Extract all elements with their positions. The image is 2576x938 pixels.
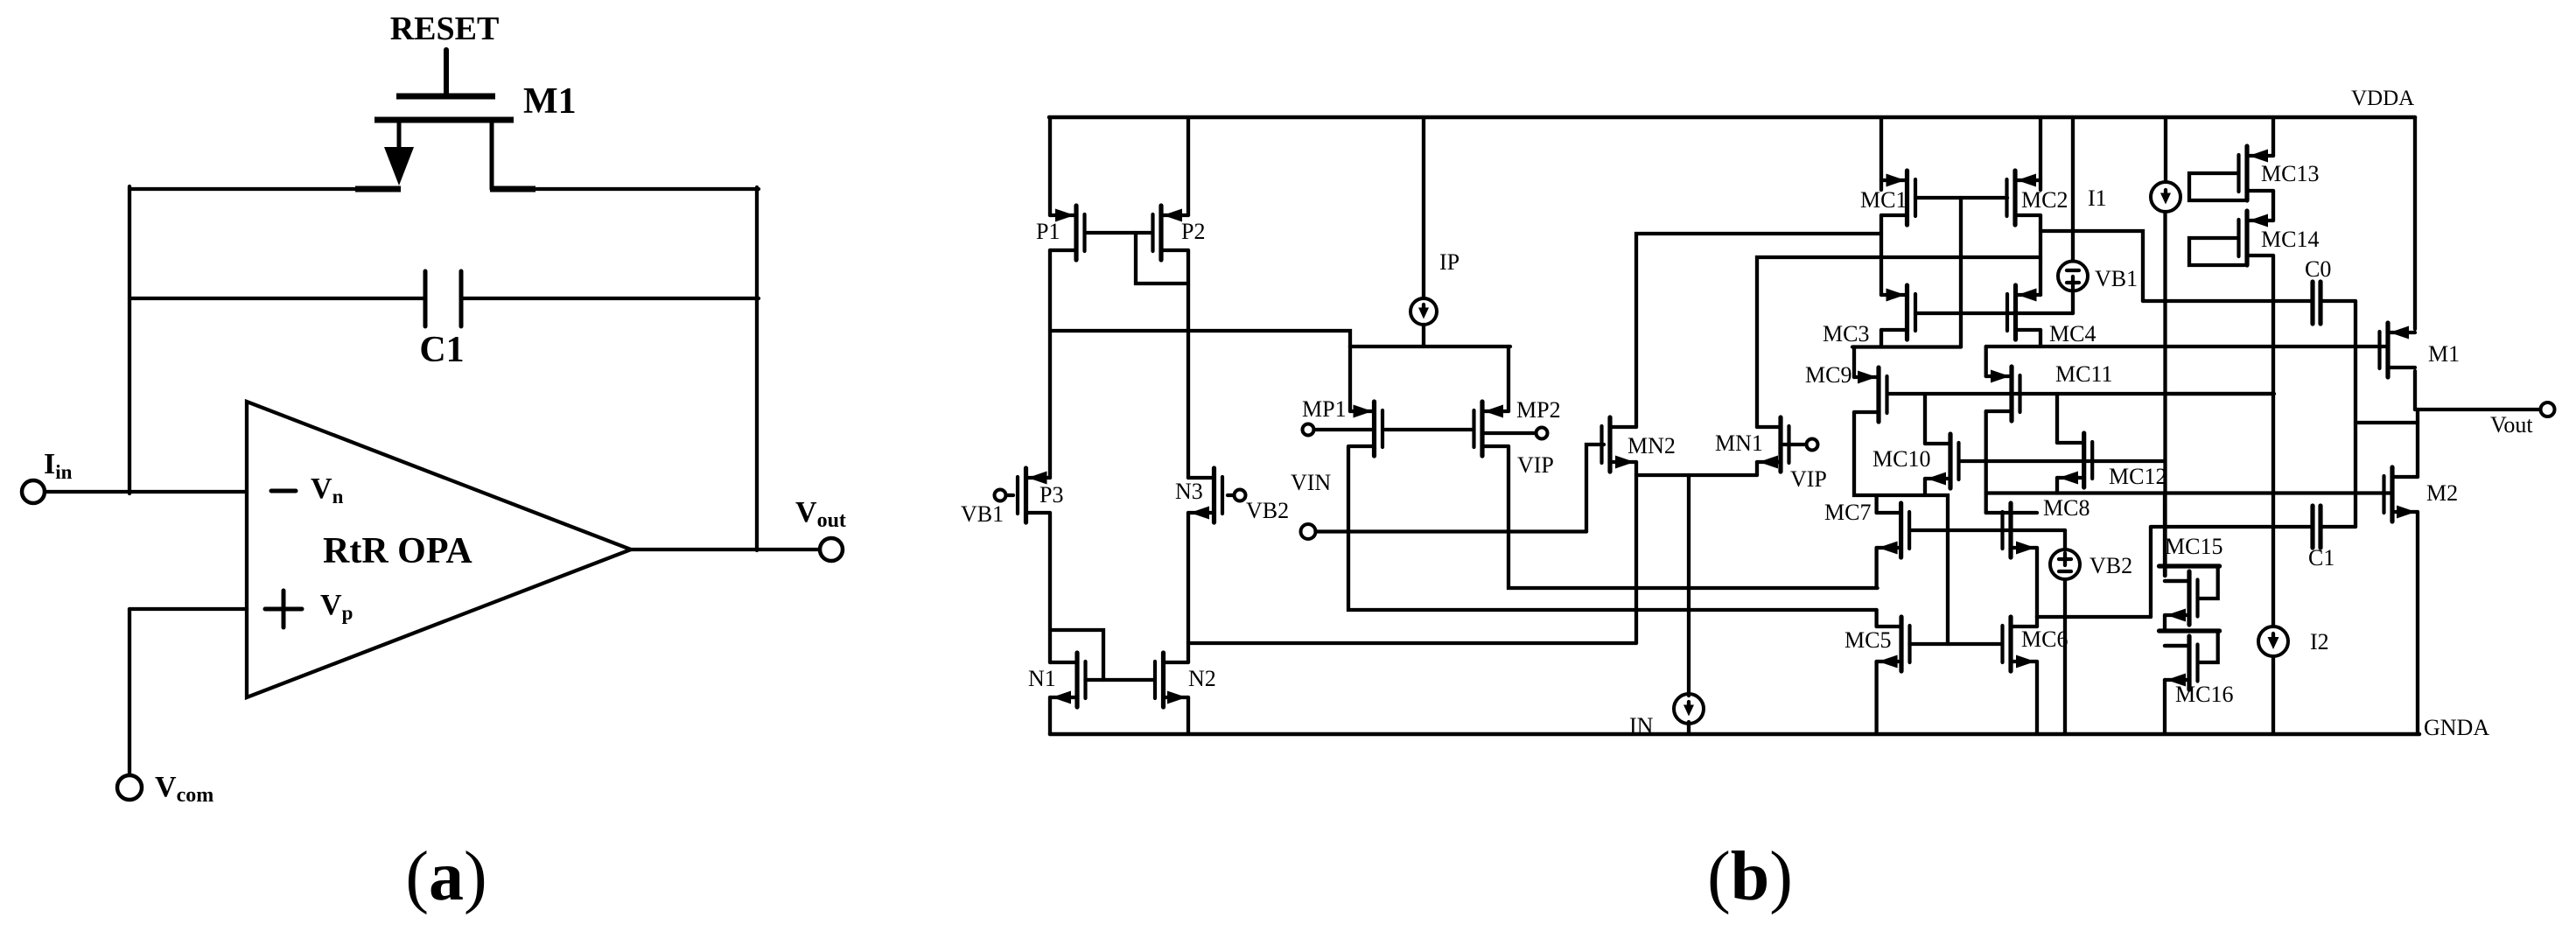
wire: M2 source to GNDA xyxy=(2416,512,2419,734)
wire: C0 left wire xyxy=(2143,299,2313,303)
current source I2 xyxy=(2258,626,2288,656)
transistor N1 xyxy=(1050,653,1086,707)
transistor M1 gate bar xyxy=(396,94,495,100)
voltage source VB1 xyxy=(2058,262,2088,291)
svg-text:MC6: MC6 xyxy=(2021,626,2068,652)
wire: MP2 source vertical xyxy=(1507,346,1510,411)
label VB1 xyxy=(2095,266,2138,291)
wire: P1 drain down to P3 source xyxy=(1048,250,1052,478)
transistor MC16 top bar xyxy=(2159,628,2220,633)
terminal VIP (MN1 gate) xyxy=(1807,439,1818,451)
label MC16 xyxy=(2175,682,2233,707)
transistor MP2 xyxy=(1474,402,1509,456)
transistor MC15 top bar xyxy=(2159,563,2220,568)
wire: MN2 gate riser xyxy=(1586,444,1604,532)
wire: right feedback vertical to Vout xyxy=(755,187,759,550)
terminal Iin xyxy=(22,480,45,503)
wire: Vcom vertical xyxy=(128,609,131,775)
wire: MC7 drain riser xyxy=(1874,495,1878,513)
wire: MP1 gate wire xyxy=(1314,428,1372,431)
transistor MC10 xyxy=(1925,434,1959,488)
wire: cascode bias wire xyxy=(1888,392,2274,395)
transistor M1 drain vertical xyxy=(490,120,494,189)
voltage source VB2 xyxy=(2050,549,2080,579)
label RESET xyxy=(390,10,500,47)
transistor MP1 xyxy=(1350,402,1382,456)
wire: VDDA to MC13 source xyxy=(2271,117,2275,156)
capacitor C0 right plate xyxy=(2318,282,2322,324)
terminal VIN (MP1 gate) xyxy=(1303,424,1314,436)
svg-text:P1: P1 xyxy=(1036,219,1060,244)
terminal VIN xyxy=(1301,524,1316,539)
wire: MC7 source drop xyxy=(1874,548,1878,588)
svg-text:VB1: VB1 xyxy=(961,501,1004,527)
svg-text:I1: I1 xyxy=(2088,185,2107,211)
label MC2 xyxy=(2021,187,2068,213)
wire: Vp input wire xyxy=(129,607,247,611)
label C0 xyxy=(2305,256,2331,282)
capacitor C1 right plate xyxy=(2318,506,2322,548)
wire: thick drain stub of M1 xyxy=(490,186,535,192)
svg-text:N3: N3 xyxy=(1175,479,1203,504)
label VIP (MP2) xyxy=(1517,452,1554,478)
svg-text:MC13: MC13 xyxy=(2261,161,2319,186)
wire: MC4 drain drop xyxy=(2039,330,2042,346)
wire: VIN wire xyxy=(1316,529,1587,533)
svg-text:MC3: MC3 xyxy=(1823,321,1869,346)
label MC15 xyxy=(2165,534,2222,559)
wire: MC1-MC2 gate wire xyxy=(1915,196,2007,199)
svg-text:I2: I2 xyxy=(2310,629,2329,654)
svg-text:Vout: Vout xyxy=(795,496,846,532)
wire: MC6 source to GNDA xyxy=(2035,661,2039,734)
wire: IN to GNDA xyxy=(1687,722,1690,734)
svg-text:VDDA: VDDA xyxy=(2351,87,2414,110)
wire: C0-C1 output column xyxy=(2354,301,2357,527)
transistor M1 (b) xyxy=(2380,323,2416,377)
svg-text:MC12: MC12 xyxy=(2109,464,2166,489)
wire: MC2 drain to MC4 source xyxy=(2039,215,2042,295)
label plus at Vp (h) xyxy=(265,607,302,612)
label VIN xyxy=(1291,470,1331,495)
transistor P2 xyxy=(1153,206,1189,260)
wire: MP1 drain drop xyxy=(1348,446,1877,610)
wire: C1 right wire xyxy=(461,297,759,300)
wire: MP pair tail bar xyxy=(1350,345,1510,348)
transistor MC16 xyxy=(2165,636,2198,689)
svg-text:(b): (b) xyxy=(1707,838,1793,915)
transistor M1 source vertical xyxy=(397,120,402,153)
label MP2 xyxy=(1516,397,1561,423)
svg-text:N2: N2 xyxy=(1188,666,1216,691)
wire: P2 gate-drain tap xyxy=(1136,233,1188,283)
wire: N2 source to GNDA xyxy=(1186,697,1190,734)
svg-text:M1: M1 xyxy=(2428,341,2460,367)
wire: MN2 source vertical xyxy=(1634,462,1638,643)
svg-text:MC9: MC9 xyxy=(1805,362,1851,388)
wire: MC9 drain drop xyxy=(1854,412,1948,644)
svg-text:MC15: MC15 xyxy=(2165,534,2222,559)
svg-text:MN2: MN2 xyxy=(1627,433,1676,458)
terminal Vout (a) xyxy=(820,538,843,561)
current source IP xyxy=(1410,298,1437,325)
label P1 xyxy=(1036,219,1060,244)
label (b) xyxy=(1707,838,1793,915)
label (a) xyxy=(405,838,486,915)
svg-text:MC10: MC10 xyxy=(1872,446,1930,472)
label MC13 xyxy=(2261,161,2319,186)
wire: VB1 top to VDDA xyxy=(2071,117,2075,262)
label N2 xyxy=(1188,666,1216,691)
transistor MC11 xyxy=(1986,367,2020,421)
svg-text:MC2: MC2 xyxy=(2021,187,2068,213)
wire: MC14 diode loop xyxy=(2189,238,2244,265)
svg-text:Vcom: Vcom xyxy=(155,771,213,807)
wire: MC1-MC2 gate tap to cascode xyxy=(1959,198,1963,347)
wire: VDDA to MC1 source xyxy=(1879,117,1883,190)
transistor P1 xyxy=(1050,206,1085,260)
wire: MC16 diode loop xyxy=(2200,633,2218,662)
node: second stage gate wire (to M1 gate) xyxy=(1986,345,2385,348)
label MC11 xyxy=(2055,361,2113,387)
wire: MP2 drain drop xyxy=(1508,446,1878,588)
wire: MC6 drain riser xyxy=(2035,617,2039,626)
wire: MC11 drain drop to M2 gate wire xyxy=(1984,411,1988,513)
wire: op-amp output wire xyxy=(631,548,820,551)
terminal VIP (MP2 gate) xyxy=(1536,428,1548,439)
svg-text:C1: C1 xyxy=(2308,545,2334,570)
transistor MC3 xyxy=(1881,285,1915,339)
label M2 (b) xyxy=(2426,480,2458,506)
capacitor C1 left plate xyxy=(423,271,428,326)
wire: I2 to GNDA xyxy=(2271,656,2275,734)
svg-text:VIN: VIN xyxy=(1291,470,1331,495)
wire: MC5-MC6 gate wire xyxy=(1910,642,2003,646)
transistor MC9 xyxy=(1854,367,1887,422)
svg-text:IP: IP xyxy=(1439,249,1459,275)
label MC6 xyxy=(2021,626,2068,652)
wire: MC15 drain stub xyxy=(2165,579,2189,583)
label MN2 xyxy=(1627,433,1676,458)
label MC7 xyxy=(1824,500,1871,525)
transistor MC6 xyxy=(2003,617,2038,671)
wire: MC15 source to MC16 xyxy=(2163,615,2166,631)
wire: MN1 source vertical xyxy=(1755,462,1759,475)
label Vn xyxy=(311,472,344,507)
wire: MC8 drain stub to MC11 column xyxy=(1986,511,2011,514)
wire: N2 drain to MN2 source wire xyxy=(1188,641,1636,645)
label Iin xyxy=(44,448,73,483)
wire: MC10 drain riser xyxy=(1923,394,1927,444)
wire: MC16 drain stub xyxy=(2165,644,2189,647)
transistor MC8 xyxy=(2003,503,2038,557)
wire: MN tail xyxy=(1636,473,1757,477)
wire: IP stem from VDDA xyxy=(1422,117,1425,298)
svg-text:Vp: Vp xyxy=(320,589,353,624)
wire: MC8 source wire to C1 column xyxy=(2037,615,2151,619)
wire: thick source stub of M1 xyxy=(355,186,401,192)
wire: VB2 bottom to GNDA xyxy=(2063,579,2067,734)
wire: P2 drain down to N3 drain xyxy=(1186,250,1190,478)
svg-text:VIP: VIP xyxy=(1517,452,1554,478)
wire: M2 gate wire down to MC15 xyxy=(2163,493,2166,577)
transistor N3 xyxy=(1188,468,1222,522)
svg-text:VB2: VB2 xyxy=(2089,553,2132,578)
svg-text:IN: IN xyxy=(1629,713,1654,738)
wire: top feedback wire (right of M1) xyxy=(492,187,759,191)
op-amp RtR OPA triangle xyxy=(247,402,631,697)
transistor MC1 xyxy=(1881,171,1915,225)
wire: N3 source down to N2 drain xyxy=(1186,513,1190,662)
transistor MC14 xyxy=(2239,211,2274,265)
svg-text:Iin: Iin xyxy=(44,448,73,483)
wire: N3 gate wire xyxy=(1228,493,1235,497)
label MC3 xyxy=(1823,321,1869,346)
transistor MC5 xyxy=(1877,617,1910,671)
wire: MP gate middle wire xyxy=(1385,428,1472,431)
svg-text:RtR OPA: RtR OPA xyxy=(323,531,472,571)
wire: MC8 source drop xyxy=(2035,548,2039,617)
label N3 xyxy=(1175,479,1203,504)
wire: MC13 diode loop xyxy=(2189,173,2244,200)
svg-text:P2: P2 xyxy=(1181,219,1205,244)
label VIP (MN1) xyxy=(1790,466,1827,492)
wire: C0 right wire xyxy=(2320,299,2355,303)
transistor N2 xyxy=(1155,653,1188,707)
svg-text:MC7: MC7 xyxy=(1824,500,1871,525)
wire: MC11 source riser xyxy=(1984,346,1988,376)
svg-text:MN1: MN1 xyxy=(1715,430,1763,456)
label RtR OPA xyxy=(323,531,472,571)
svg-text:M2: M2 xyxy=(2426,480,2458,506)
wire: VDDA right drop to M1 source xyxy=(2413,117,2417,329)
wire: N1 source to GNDA xyxy=(1048,697,1052,734)
svg-text:P3: P3 xyxy=(1039,482,1063,507)
wire: I1 to MC14 drain link xyxy=(2166,392,2273,395)
wire: MC3 drain drop xyxy=(1879,330,1883,347)
wire: MC5 drain riser xyxy=(1874,610,1878,626)
transistor M1 source arrow xyxy=(384,147,414,185)
label M1 (b) xyxy=(2428,341,2460,367)
wire: MN1 drain riser xyxy=(1757,257,2040,427)
wire: first stage bias wire P1 drain to tail xyxy=(1050,331,1350,346)
label VB1 (left) xyxy=(961,501,1004,527)
transistor M1 channel bar xyxy=(374,117,514,123)
transistor MC2 xyxy=(2007,171,2041,225)
wire: MC5 source to GNDA xyxy=(1874,661,1878,734)
label C1 (b) xyxy=(2308,545,2334,570)
wire: I1 down bias column xyxy=(2163,212,2166,576)
svg-text:Vn: Vn xyxy=(311,472,344,507)
label MC8 xyxy=(2043,495,2089,521)
wire: top feedback wire (left of M1) xyxy=(129,187,394,191)
wire: MC14 drain column down to I2 xyxy=(2271,255,2275,626)
wire: MC10 source drop xyxy=(1923,479,1927,495)
wire: MC10-MC12 gate wire xyxy=(1959,459,2165,463)
svg-text:VB1: VB1 xyxy=(2095,266,2138,291)
wire: output column branch to M2 drain xyxy=(2355,421,2418,424)
label Vp xyxy=(320,589,353,624)
label plus at Vp (v) xyxy=(282,591,286,627)
transistor MN1 xyxy=(1757,417,1789,472)
svg-text:MC14: MC14 xyxy=(2261,227,2319,252)
transistor M2 (b) xyxy=(2384,467,2418,521)
svg-text:M1: M1 xyxy=(523,81,577,122)
transistor MC15 xyxy=(2165,571,2198,625)
label VDDA xyxy=(2351,87,2414,110)
wire: MN2 drain riser xyxy=(1636,234,1881,427)
node: fold wire left (MC3 drain / MC9 source) xyxy=(1852,345,1961,348)
label Vout (b) xyxy=(2490,412,2533,437)
wire: VB1 bottom to MC3-MC4 gates xyxy=(2071,291,2075,314)
wire: C1 column riser xyxy=(2149,527,2152,617)
current source I1 xyxy=(2151,182,2180,212)
svg-text:(a): (a) xyxy=(405,838,486,915)
label IN xyxy=(1629,713,1654,738)
label MC1 xyxy=(1860,187,1907,213)
terminal Vcom xyxy=(117,775,142,800)
svg-text:VB2: VB2 xyxy=(1246,498,1289,523)
label C1 xyxy=(419,330,464,370)
label MP1 xyxy=(1302,396,1347,422)
wire: C1 right wire xyxy=(2320,525,2355,528)
wire: N1 diode connection xyxy=(1050,630,1103,680)
label MC5 xyxy=(1844,627,1891,653)
label Vcom xyxy=(155,771,213,807)
label MN1 xyxy=(1715,430,1763,456)
terminal VB1 (P3 gate) xyxy=(995,490,1006,501)
wire: MC12 drain riser xyxy=(2055,394,2059,443)
label M1 xyxy=(523,81,577,122)
wire: MC9 source riser xyxy=(1852,347,1856,378)
capacitor C1 left plate xyxy=(2310,506,2314,548)
wire: P3 gate wire xyxy=(1006,493,1014,497)
label VB2 (left) xyxy=(1246,498,1289,523)
wire: MC16 source to GNDA xyxy=(2163,680,2166,734)
wire: P2 gate wire xyxy=(1085,231,1152,234)
svg-text:MC16: MC16 xyxy=(2175,682,2233,707)
wire: M1 drain to Vout xyxy=(2413,371,2417,409)
current source IN xyxy=(1674,694,1704,724)
transistor MC4 xyxy=(2007,285,2040,339)
terminal Vout (b) xyxy=(2541,402,2555,416)
wire: M2 gate wire xyxy=(1986,491,2390,494)
svg-text:MC5: MC5 xyxy=(1844,627,1891,653)
label GNDA xyxy=(2424,715,2489,740)
wire: MC1 drain to MC3 source xyxy=(1879,215,1883,295)
svg-text:C0: C0 xyxy=(2305,256,2331,282)
wire: IN stem xyxy=(1687,475,1690,696)
label N1 xyxy=(1028,666,1056,691)
label IP xyxy=(1439,249,1459,275)
wire: VB2 top to MC7-MC8 gates xyxy=(2063,530,2067,549)
svg-text:GNDA: GNDA xyxy=(2424,715,2489,740)
terminal VB2 (N3 gate) xyxy=(1235,490,1246,501)
wire: MC12 source drop xyxy=(2055,478,2059,493)
label P3 xyxy=(1039,482,1063,507)
wire: P3 drain down to N1 drain xyxy=(1048,513,1052,662)
transistor MC12 xyxy=(2057,433,2092,487)
svg-text:MP2: MP2 xyxy=(1516,397,1561,423)
wire: MN1 gate wire xyxy=(1783,443,1807,446)
power rail VDDA xyxy=(1049,115,2415,120)
svg-text:MP1: MP1 xyxy=(1302,396,1347,422)
transistor MN2 xyxy=(1602,417,1637,472)
wire: MP1 source vertical xyxy=(1348,346,1352,411)
label P2 xyxy=(1181,219,1205,244)
wire: C1 left wire xyxy=(2151,525,2313,528)
capacitor C0 left plate xyxy=(2310,282,2314,324)
ground rail GNDA xyxy=(1050,732,2419,737)
svg-text:MC8: MC8 xyxy=(2043,495,2089,521)
wire: Iin input wire to op-amp inverting input xyxy=(45,490,247,493)
transistor MC13 xyxy=(2239,146,2274,200)
wire: MC3-MC4 gate wire xyxy=(1915,311,2073,315)
label Vout (a) xyxy=(795,496,846,532)
wire: MC7-MC8 gate wire xyxy=(1910,528,2065,532)
wire: Vout wire (b) xyxy=(2415,408,2541,411)
label MC9 xyxy=(1805,362,1851,388)
label I2 xyxy=(2310,629,2329,654)
wire: I1 stem from VDDA xyxy=(2164,117,2167,182)
wire: MP2 gate wire xyxy=(1485,431,1536,435)
wire: feedback left vertical xyxy=(128,186,131,493)
svg-text:RESET: RESET xyxy=(390,10,500,47)
label MC14 xyxy=(2261,227,2319,252)
label MC4 xyxy=(2049,321,2096,346)
wire: IP to tail bar xyxy=(1422,325,1425,346)
svg-text:MC1: MC1 xyxy=(1860,187,1907,213)
svg-text:MC4: MC4 xyxy=(2049,321,2096,346)
label MC10 xyxy=(1872,446,1930,472)
label minus at Vn xyxy=(271,489,296,493)
wire: MC15 diode loop xyxy=(2200,568,2218,598)
svg-text:N1: N1 xyxy=(1028,666,1056,691)
capacitor C1 right plate xyxy=(459,271,464,326)
wire: MC2 drain wire to C0 column xyxy=(2040,231,2143,301)
transistor MC7 xyxy=(1877,503,1910,557)
label MC12 xyxy=(2109,464,2166,489)
svg-text:MC11: MC11 xyxy=(2055,361,2113,387)
wire: Vout to M2 drain xyxy=(2416,409,2419,477)
transistor M1 gate stem xyxy=(444,50,449,96)
wire: VDDA to MC2 source xyxy=(2039,117,2042,190)
svg-text:Vout: Vout xyxy=(2490,412,2533,437)
wire: left rail VDDA to P1 source xyxy=(1048,117,1052,215)
wire: MC13 drain to MC14 source xyxy=(2271,191,2275,220)
svg-text:C1: C1 xyxy=(419,330,464,370)
svg-text:VIP: VIP xyxy=(1790,466,1827,492)
label I1 xyxy=(2088,185,2107,211)
wire: C1 left wire xyxy=(129,297,425,300)
label VB2 xyxy=(2089,553,2132,578)
wire: N1-N2 gate wire xyxy=(1086,678,1155,682)
wire: VDDA to P2 source xyxy=(1186,117,1190,215)
transistor P3 xyxy=(1018,468,1050,522)
